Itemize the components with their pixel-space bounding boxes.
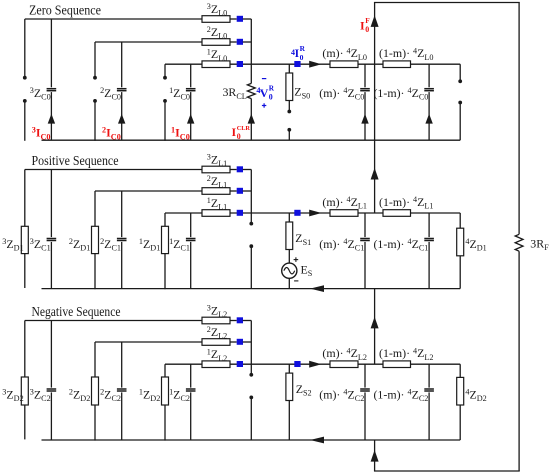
wire positive bus down to negative rail [374,289,376,365]
node T3-2 (blue terminal) [237,317,243,323]
wire rail phase 1 (main) [165,363,460,365]
switch below ZS0 [288,101,290,111]
inductor 2ZL0 [202,39,230,46]
svg-text:R: R [300,44,306,53]
node T1-0 (blue terminal) [237,61,243,67]
inductor (1-m)4ZL0 [383,61,411,68]
inductor 2ZL1 [202,188,230,195]
wire fault line up from zero rail with I0F [374,3,376,65]
wire negative bus down to bottom return [374,440,376,471]
impedance 4ZD2 [459,364,461,440]
svg-text:0: 0 [237,132,241,141]
inductor 1ZL2 [202,361,230,368]
inductor 1ZL0 [202,61,230,68]
svg-text:Zero Sequence: Zero Sequence [29,2,101,17]
current arrow on (m)4ZC0 branch [361,114,368,124]
current arrow 2IC0 [118,114,125,124]
wire terminal to junction column [243,341,252,343]
node TR-0 (blue terminal) [294,61,300,67]
node TR-1 (blue terminal) [294,210,300,216]
wire box3 to terminal [230,18,237,20]
impedance 1ZD1 [164,213,166,289]
current direction arrow on main rail [309,361,321,368]
current arrow positive-to-negative [371,317,379,329]
node T1-1 (blue terminal) [237,210,243,216]
label V0R polarity - (top) [262,78,266,80]
wire bottom return to fault resistor [374,470,520,472]
wire bottom bus [42,439,461,441]
svg-text:Positive Sequence: Positive Sequence [32,153,119,168]
svg-text:V: V [260,86,269,100]
current arrow zero-to-positive [371,168,379,180]
wire top rail to fault resistor [374,2,520,4]
inductor 1ZL1 [202,210,230,217]
wire rail phase 3 [25,18,202,20]
label V0R polarity + (bottom) [262,105,266,107]
wire junction column joining three phases [250,321,252,365]
current arrow 3IC0 [48,114,55,124]
inductor 3ZL2 [202,317,230,324]
impedance 2ZD2 [94,342,96,441]
node T3-1 (blue terminal) [237,166,243,172]
resistor 3RCL [250,64,252,83]
resistor 3RF [518,3,520,235]
wire bottom bus [42,288,461,290]
capacitor 1ZC1 [190,213,192,237]
capacitor 2ZC1 [121,191,123,237]
node T2-1 (blue terminal) [237,188,243,194]
inductor 3ZL1 [202,166,230,173]
capacitor 3ZC0 [50,19,52,87]
wire zero rail down to zero bus [374,64,376,140]
wire terminal to junction column [243,18,252,20]
current arrow 1IC0 [187,114,194,124]
inductor 3ZL0 [202,16,230,23]
svg-text:4: 4 [256,86,260,95]
wire box3 to terminal [230,320,237,322]
capacitor 3ZC2 [50,321,52,388]
label ES polarity + [294,259,299,261]
svg-text:4: 4 [291,48,295,57]
voltage source ES [288,250,290,264]
wire rail phase 2 [95,341,202,343]
node T2-0 (blue terminal) [237,39,243,45]
impedance ZS1 [288,213,290,222]
wire zero bus down to positive rail [374,140,376,213]
wire rail phase 2 [95,41,202,43]
capacitor 1ZC2 [190,364,192,387]
switch (breaker) phase 1 left column [164,64,166,76]
switch right column [459,64,461,80]
svg-text:0: 0 [300,53,304,62]
impedance 3ZD2 [24,321,26,440]
inductor (m)4ZL0 [330,61,358,68]
current arrow I0CLR [248,114,255,124]
capacitor 2ZC0 [121,42,123,87]
wire box2 to terminal [230,190,237,192]
current direction arrow on bus (left) [310,285,324,292]
capacitor (m)4ZC1 [364,213,366,237]
svg-text:Negative Sequence: Negative Sequence [32,304,121,319]
wire terminal to junction column [243,320,252,322]
current arrow bottom return [371,450,379,462]
current direction arrow on main rail [309,61,321,68]
wire bottom bus [42,139,461,141]
wire junction column joining three phases [250,170,252,214]
wire box2 to terminal [230,41,237,43]
node T1-2 (blue terminal) [237,361,243,367]
wire terminal to junction column [243,190,252,192]
impedance 2ZD1 [94,191,96,289]
switch (breaker) phase 2 left column [94,42,96,76]
impedance ZS0 [288,64,290,73]
wire junction column joining three phases [250,19,252,64]
inductor (1-m)4ZL2 [383,361,411,368]
current arrow I0F [371,15,379,27]
capacitor (m)4ZC2 [364,364,366,387]
capacitor 2ZC2 [121,342,123,388]
node TR-2 (blue terminal) [294,361,300,367]
wire rail phase 3 [25,320,202,322]
label ES polarity - [294,280,298,282]
impedance 1ZD2 [164,364,166,440]
impedance 4ZD1 [459,213,461,289]
wire box2 to terminal [230,341,237,343]
wire rail phase 1 (main) [165,212,460,214]
capacitor (m)4ZC0 [364,64,366,87]
capacitor (1-m)4ZC0 [428,64,430,87]
svg-text:F: F [365,16,370,25]
wire terminal to junction column [243,41,252,43]
impedance 3ZD1 [24,170,26,289]
wire box3 to terminal [230,169,237,171]
current direction arrow on bus (left) [310,437,324,444]
node T3-0 (blue terminal) [237,16,243,22]
wire rail phase 3 [25,169,202,171]
inductor 2ZL2 [202,339,230,346]
current arrow on (1-m)4ZC0 branch [425,114,432,124]
capacitor 3ZC1 [50,170,52,238]
inductor (m)4ZL2 [330,361,358,368]
switch below junction column [250,213,252,222]
svg-text:0: 0 [269,92,273,101]
inductor (1-m)4ZL1 [383,210,411,217]
wire rail phase 2 [95,190,202,192]
capacitor 1ZC0 [190,64,192,87]
svg-text:R: R [269,84,275,93]
svg-text:0: 0 [365,25,369,34]
impedance ZS2 [288,364,290,373]
capacitor (1-m)4ZC2 [428,364,430,387]
current direction arrow on main rail [309,210,321,217]
inductor (m)4ZL1 [330,210,358,217]
switch below junction column [250,364,252,373]
node T2-2 (blue terminal) [237,339,243,345]
wire terminal to junction column [243,169,252,171]
capacitor (1-m)4ZC1 [428,213,430,237]
switch (breaker) phase 3 left column [24,19,26,76]
wire rail phase 1 (main) [165,63,460,65]
